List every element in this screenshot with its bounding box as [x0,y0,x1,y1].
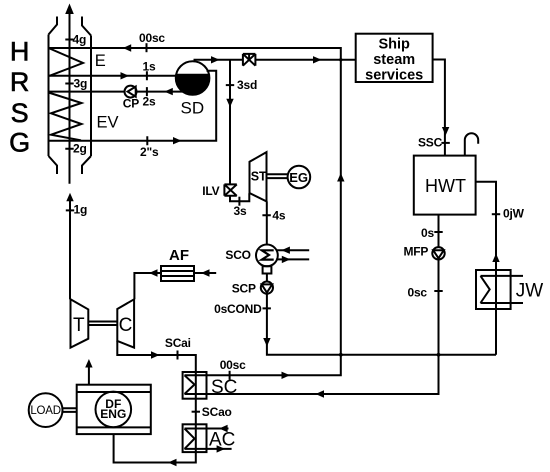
svg-text:3g: 3g [74,76,88,90]
svg-text:0sc: 0sc [407,286,427,300]
svg-text:SSC: SSC [418,136,443,150]
svg-text:2s: 2s [143,94,156,108]
svg-text:SCP: SCP [232,282,256,296]
svg-text:SC: SC [211,377,237,398]
svg-text:SCai: SCai [165,336,191,350]
svg-text:LOAD: LOAD [30,405,61,417]
svg-text:EV: EV [97,113,119,131]
svg-text:0jW: 0jW [503,207,525,221]
svg-text:SCao: SCao [202,405,232,419]
svg-text:AF: AF [169,247,189,264]
svg-text:CP: CP [123,97,139,111]
svg-text:ILV: ILV [202,184,219,198]
svg-text:SD: SD [181,99,205,118]
svg-text:H: H [10,37,30,67]
svg-text:S: S [11,98,29,128]
svg-text:steam: steam [373,52,415,68]
svg-text:EG: EG [289,170,308,185]
svg-text:2"s: 2"s [140,145,159,159]
svg-text:0s: 0s [421,226,434,240]
svg-text:G: G [9,128,30,158]
svg-text:4g: 4g [73,33,87,47]
svg-text:4s: 4s [272,209,285,223]
svg-text:1g: 1g [74,202,88,216]
svg-text:3sd: 3sd [237,78,257,92]
svg-text:E: E [95,52,106,70]
svg-text:JW: JW [516,280,544,301]
svg-text:T: T [73,315,85,336]
svg-text:services: services [365,67,423,83]
svg-text:00sc: 00sc [220,358,246,372]
svg-text:SCO: SCO [225,248,250,262]
svg-text:0sCOND: 0sCOND [214,302,262,316]
svg-text:AC: AC [209,429,235,450]
svg-text:MFP: MFP [403,244,428,258]
svg-text:3s: 3s [234,204,247,218]
svg-text:Ship: Ship [378,37,410,53]
svg-text:C: C [119,315,133,336]
svg-text:00sc: 00sc [139,31,165,45]
svg-text:HWT: HWT [425,176,466,196]
svg-text:ST: ST [251,170,267,184]
svg-text:R: R [10,67,30,97]
svg-text:1s: 1s [143,60,156,74]
svg-text:ENG: ENG [100,407,126,421]
svg-text:2g: 2g [73,142,87,156]
